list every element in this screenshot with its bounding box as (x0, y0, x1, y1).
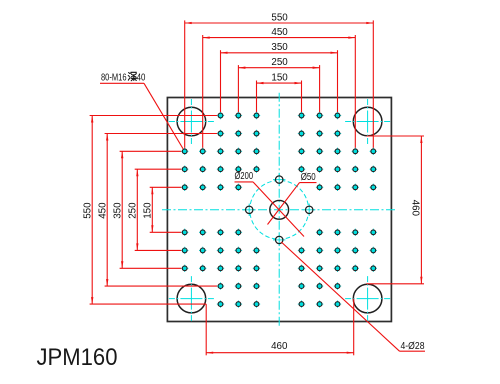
svg-text:250: 250 (128, 202, 139, 219)
bolt circle Ø200 (cyan dashed) (250, 180, 309, 239)
label Ø50 with leader (268, 172, 317, 225)
grid holes M16 row 10 (217, 300, 341, 307)
vertical centerline (278, 93, 280, 327)
svg-text:80-M16: 80-M16 (101, 72, 127, 83)
corner hole Ø28 bottom-left (169, 276, 214, 321)
grid holes M16 row 4 (181, 166, 377, 173)
label 80-M16 depth40 with leader (100, 72, 183, 149)
dimension 450 left (98, 134, 217, 287)
grid holes M16 row 2 (217, 130, 341, 137)
svg-text:450: 450 (271, 27, 288, 38)
svg-text:460: 460 (409, 200, 420, 217)
svg-text:Ø200: Ø200 (235, 171, 254, 182)
bolt-circle hole south (273, 234, 285, 246)
svg-text:150: 150 (271, 72, 288, 83)
dimension 350 left (113, 151, 182, 268)
dimension 250 top (238, 57, 319, 112)
svg-text:250: 250 (271, 57, 288, 68)
horizontal centerline (162, 209, 397, 211)
dimension 450 top (203, 27, 356, 148)
dimension 150 left (143, 187, 182, 232)
dimension 550 left (83, 116, 217, 305)
dimension 550 top (185, 12, 374, 148)
label 4-Ø28 with leader (281, 242, 425, 352)
svg-text:550: 550 (83, 202, 94, 219)
grid holes M16 row 3 (181, 148, 377, 155)
corner hole Ø28 top-right (345, 99, 390, 144)
svg-text:550: 550 (271, 12, 288, 23)
dimension 150 top (257, 72, 302, 112)
svg-text:Ø50: Ø50 (301, 172, 316, 183)
svg-text:460: 460 (271, 341, 288, 352)
grid holes M16 row 6 (181, 229, 377, 236)
label Ø200 with leader (235, 171, 305, 236)
svg-text:450: 450 (98, 202, 109, 219)
grid holes M16 row 7 (181, 247, 377, 254)
corner hole Ø28 top-left (169, 99, 214, 144)
corner hole Ø28 bottom-right (345, 276, 390, 321)
svg-text:350: 350 (271, 42, 288, 53)
bolt-circle hole west (243, 204, 255, 216)
svg-text:350: 350 (113, 202, 124, 219)
bolt-circle hole north (273, 173, 285, 185)
svg-text:JPM160: JPM160 (37, 344, 118, 371)
svg-text:150: 150 (143, 202, 154, 219)
bolt-circle hole east (303, 204, 315, 216)
dimension 460 right (367, 136, 425, 284)
grid holes M16 row 8 (181, 265, 377, 272)
grid holes M16 row 9 (217, 282, 341, 289)
grid holes M16 row 5 (181, 184, 377, 191)
svg-text:4-Ø28: 4-Ø28 (401, 341, 425, 352)
svg-text:40: 40 (137, 72, 146, 83)
dimension 350 top (221, 42, 338, 112)
dimension 250 left (128, 169, 182, 250)
grid holes M16 row 1 (217, 112, 341, 119)
plate outline (167, 98, 391, 322)
dimension 460 bottom (206, 299, 354, 356)
center hole Ø50 (270, 200, 289, 219)
